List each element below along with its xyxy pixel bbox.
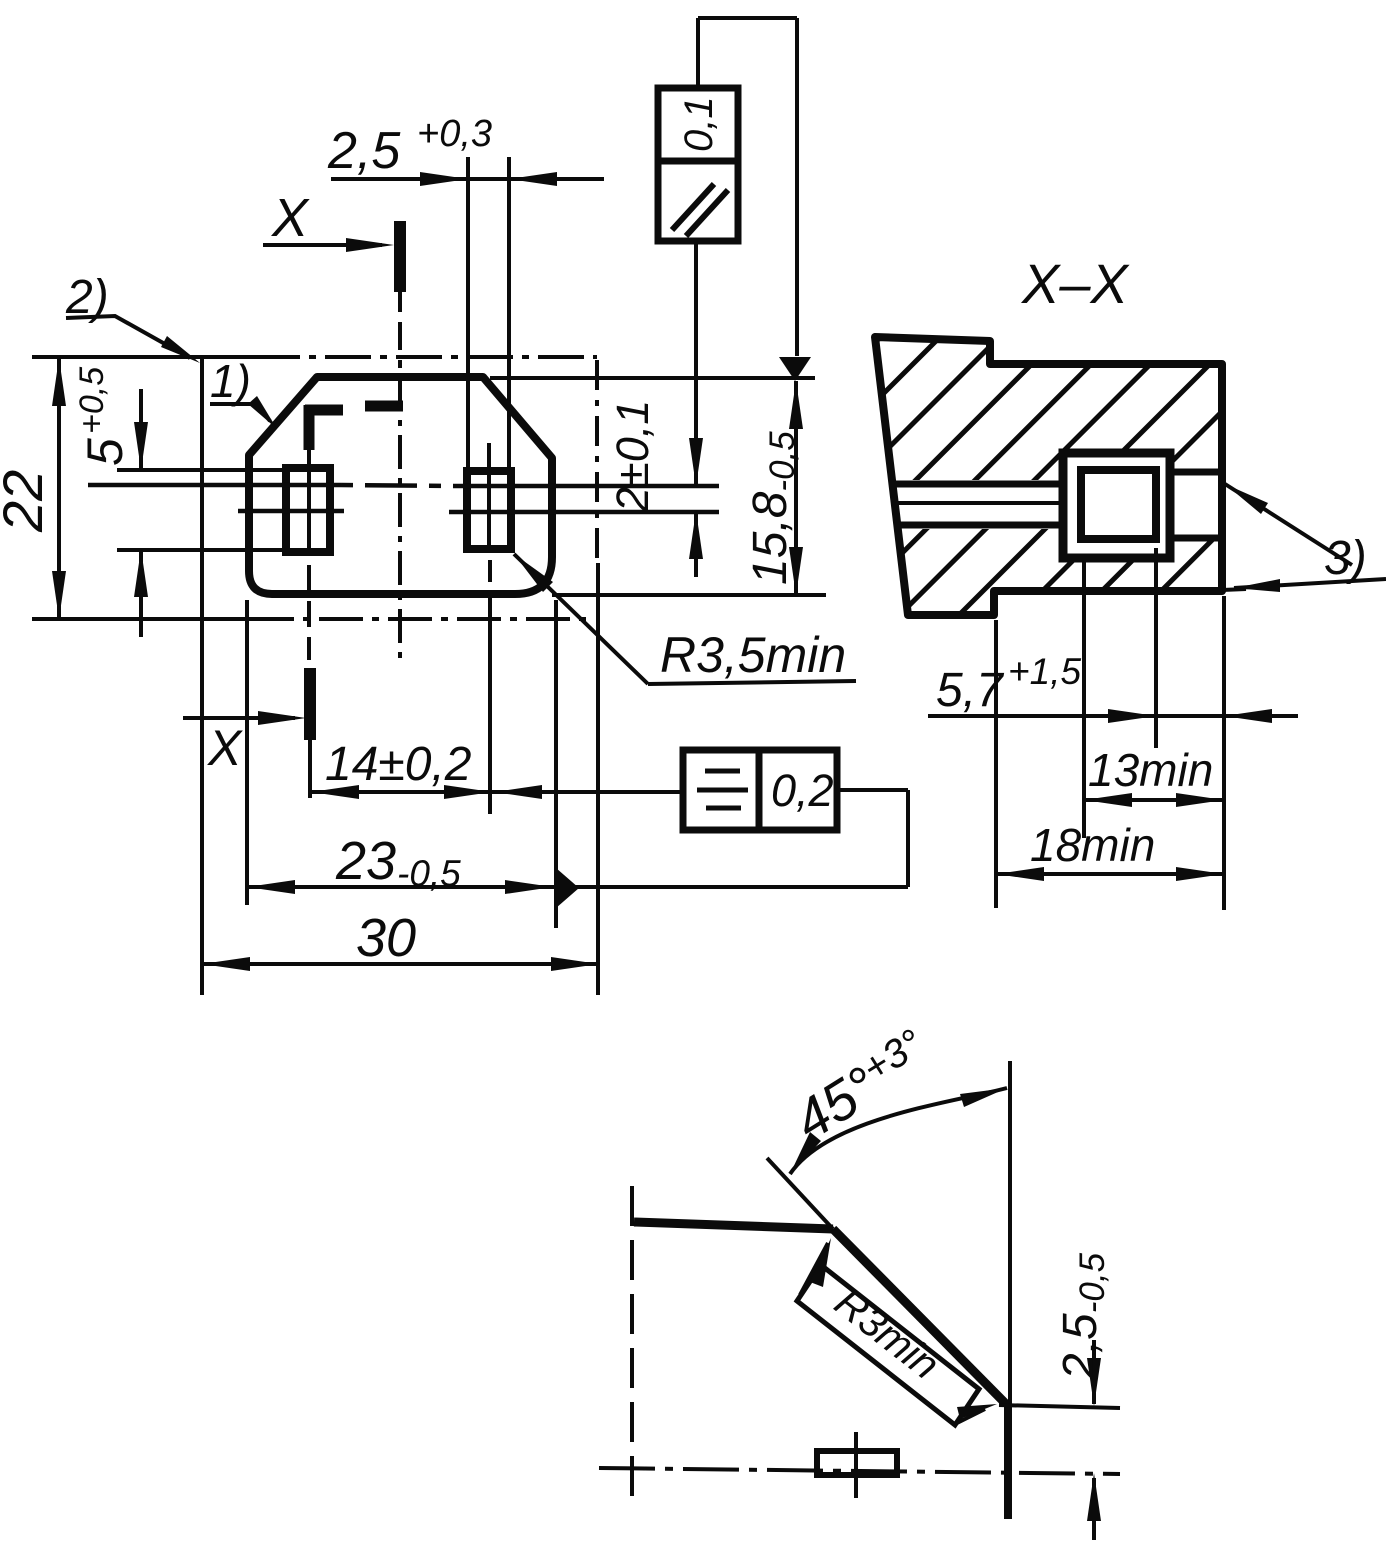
svg-text:23: 23 [335, 831, 396, 891]
dimension 13min [1084, 744, 1224, 807]
right slot [467, 471, 511, 549]
svg-text:-0,5: -0,5 [397, 853, 461, 894]
dimension 5,7+1,5 [928, 651, 1298, 723]
svg-text:X: X [270, 188, 310, 248]
symmetry tolerance frame [683, 750, 908, 887]
svg-text:22: 22 [0, 470, 54, 533]
section dim extension lines [994, 620, 998, 908]
parallelism tolerance frame [658, 18, 811, 381]
svg-text:5,7: 5,7 [936, 664, 1005, 717]
centerline bottom horizontal [32, 617, 594, 621]
extension top edge right [490, 376, 815, 380]
svg-text:0,2: 0,2 [771, 765, 834, 816]
keyway groove lines left [892, 484, 1063, 525]
svg-text:5: 5 [77, 438, 133, 466]
key inner square [1081, 470, 1156, 539]
svg-text:X: X [207, 720, 243, 776]
extension line 23 right [554, 600, 558, 928]
dimension 2,5+0,3 [327, 113, 604, 186]
svg-text:18min: 18min [1030, 819, 1155, 871]
section mark X bottom [183, 668, 310, 776]
svg-text:2±0,1: 2±0,1 [607, 400, 658, 513]
chamfer construction line [767, 1158, 833, 1229]
dimension 30 [202, 908, 599, 971]
slot top edge extension [117, 468, 288, 472]
centerline top horizontal [32, 355, 597, 359]
bottom edge short extension [1222, 589, 1246, 590]
section mark X top [263, 188, 400, 292]
svg-text:2,5: 2,5 [327, 122, 401, 180]
svg-text:3): 3) [1324, 532, 1367, 585]
slot width extension lines [466, 157, 470, 471]
dimension 23-0,5 [247, 831, 908, 908]
dimension 14±0,2 [311, 738, 683, 799]
detail centerline vertical [630, 1186, 634, 1500]
groove bottom line [238, 511, 719, 512]
dimension 2±0,1 [607, 241, 703, 577]
label R3,5min [514, 554, 856, 684]
keyway groove lines right [1170, 472, 1222, 538]
section body hatched [875, 337, 1222, 615]
svg-text:X–X: X–X [1020, 252, 1130, 315]
left slot [286, 468, 330, 552]
extension line 30 left [200, 355, 204, 995]
svg-text:+1,5: +1,5 [1008, 651, 1081, 692]
section body outline [875, 337, 1222, 615]
dimension 5+0,5 [73, 367, 148, 637]
detail horizontal extension [999, 1405, 1120, 1408]
label 2) [65, 271, 200, 363]
extension line 23 left [245, 600, 249, 905]
svg-text:1): 1) [210, 355, 251, 407]
groove white cutouts [878, 480, 1064, 529]
dimension 2,5-0,5 [1054, 1252, 1112, 1540]
svg-text:0,1: 0,1 [677, 96, 721, 152]
angle dimension 45°+3° [783, 1021, 1007, 1174]
right slot centerline [489, 443, 490, 814]
centerline right vertical [597, 360, 598, 995]
dimension 22 [0, 358, 66, 619]
left slot centerline [309, 450, 310, 798]
detail chamfer line [833, 1229, 1006, 1404]
detail centerline horizontal [599, 1468, 1120, 1474]
detail surface line [634, 1222, 833, 1229]
key profile small rect [817, 1432, 897, 1498]
dimension 18min [996, 819, 1224, 881]
slot bottom edge extension [117, 548, 288, 552]
label 3) [1225, 484, 1386, 592]
label R3min boxed [797, 1238, 997, 1425]
groove top line [88, 485, 719, 486]
svg-text:14±0,2: 14±0,2 [325, 738, 471, 791]
svg-text:13min: 13min [1088, 744, 1213, 796]
key outer square [1063, 453, 1170, 558]
extension bottom edge right [552, 593, 826, 597]
section path elbow marks [305, 405, 403, 450]
dimension 15,8-0,5 [744, 381, 803, 595]
svg-text:R3,5min: R3,5min [660, 627, 846, 683]
svg-text:30: 30 [356, 908, 416, 968]
label 1) [210, 355, 277, 429]
svg-text:2): 2) [65, 271, 109, 324]
detail vertical edge [1008, 1061, 1010, 1519]
svg-text:+0,5: +0,5 [73, 367, 111, 434]
part outline [249, 377, 552, 594]
part vertical centerline [398, 292, 402, 660]
svg-text:+0,3: +0,3 [417, 113, 492, 155]
